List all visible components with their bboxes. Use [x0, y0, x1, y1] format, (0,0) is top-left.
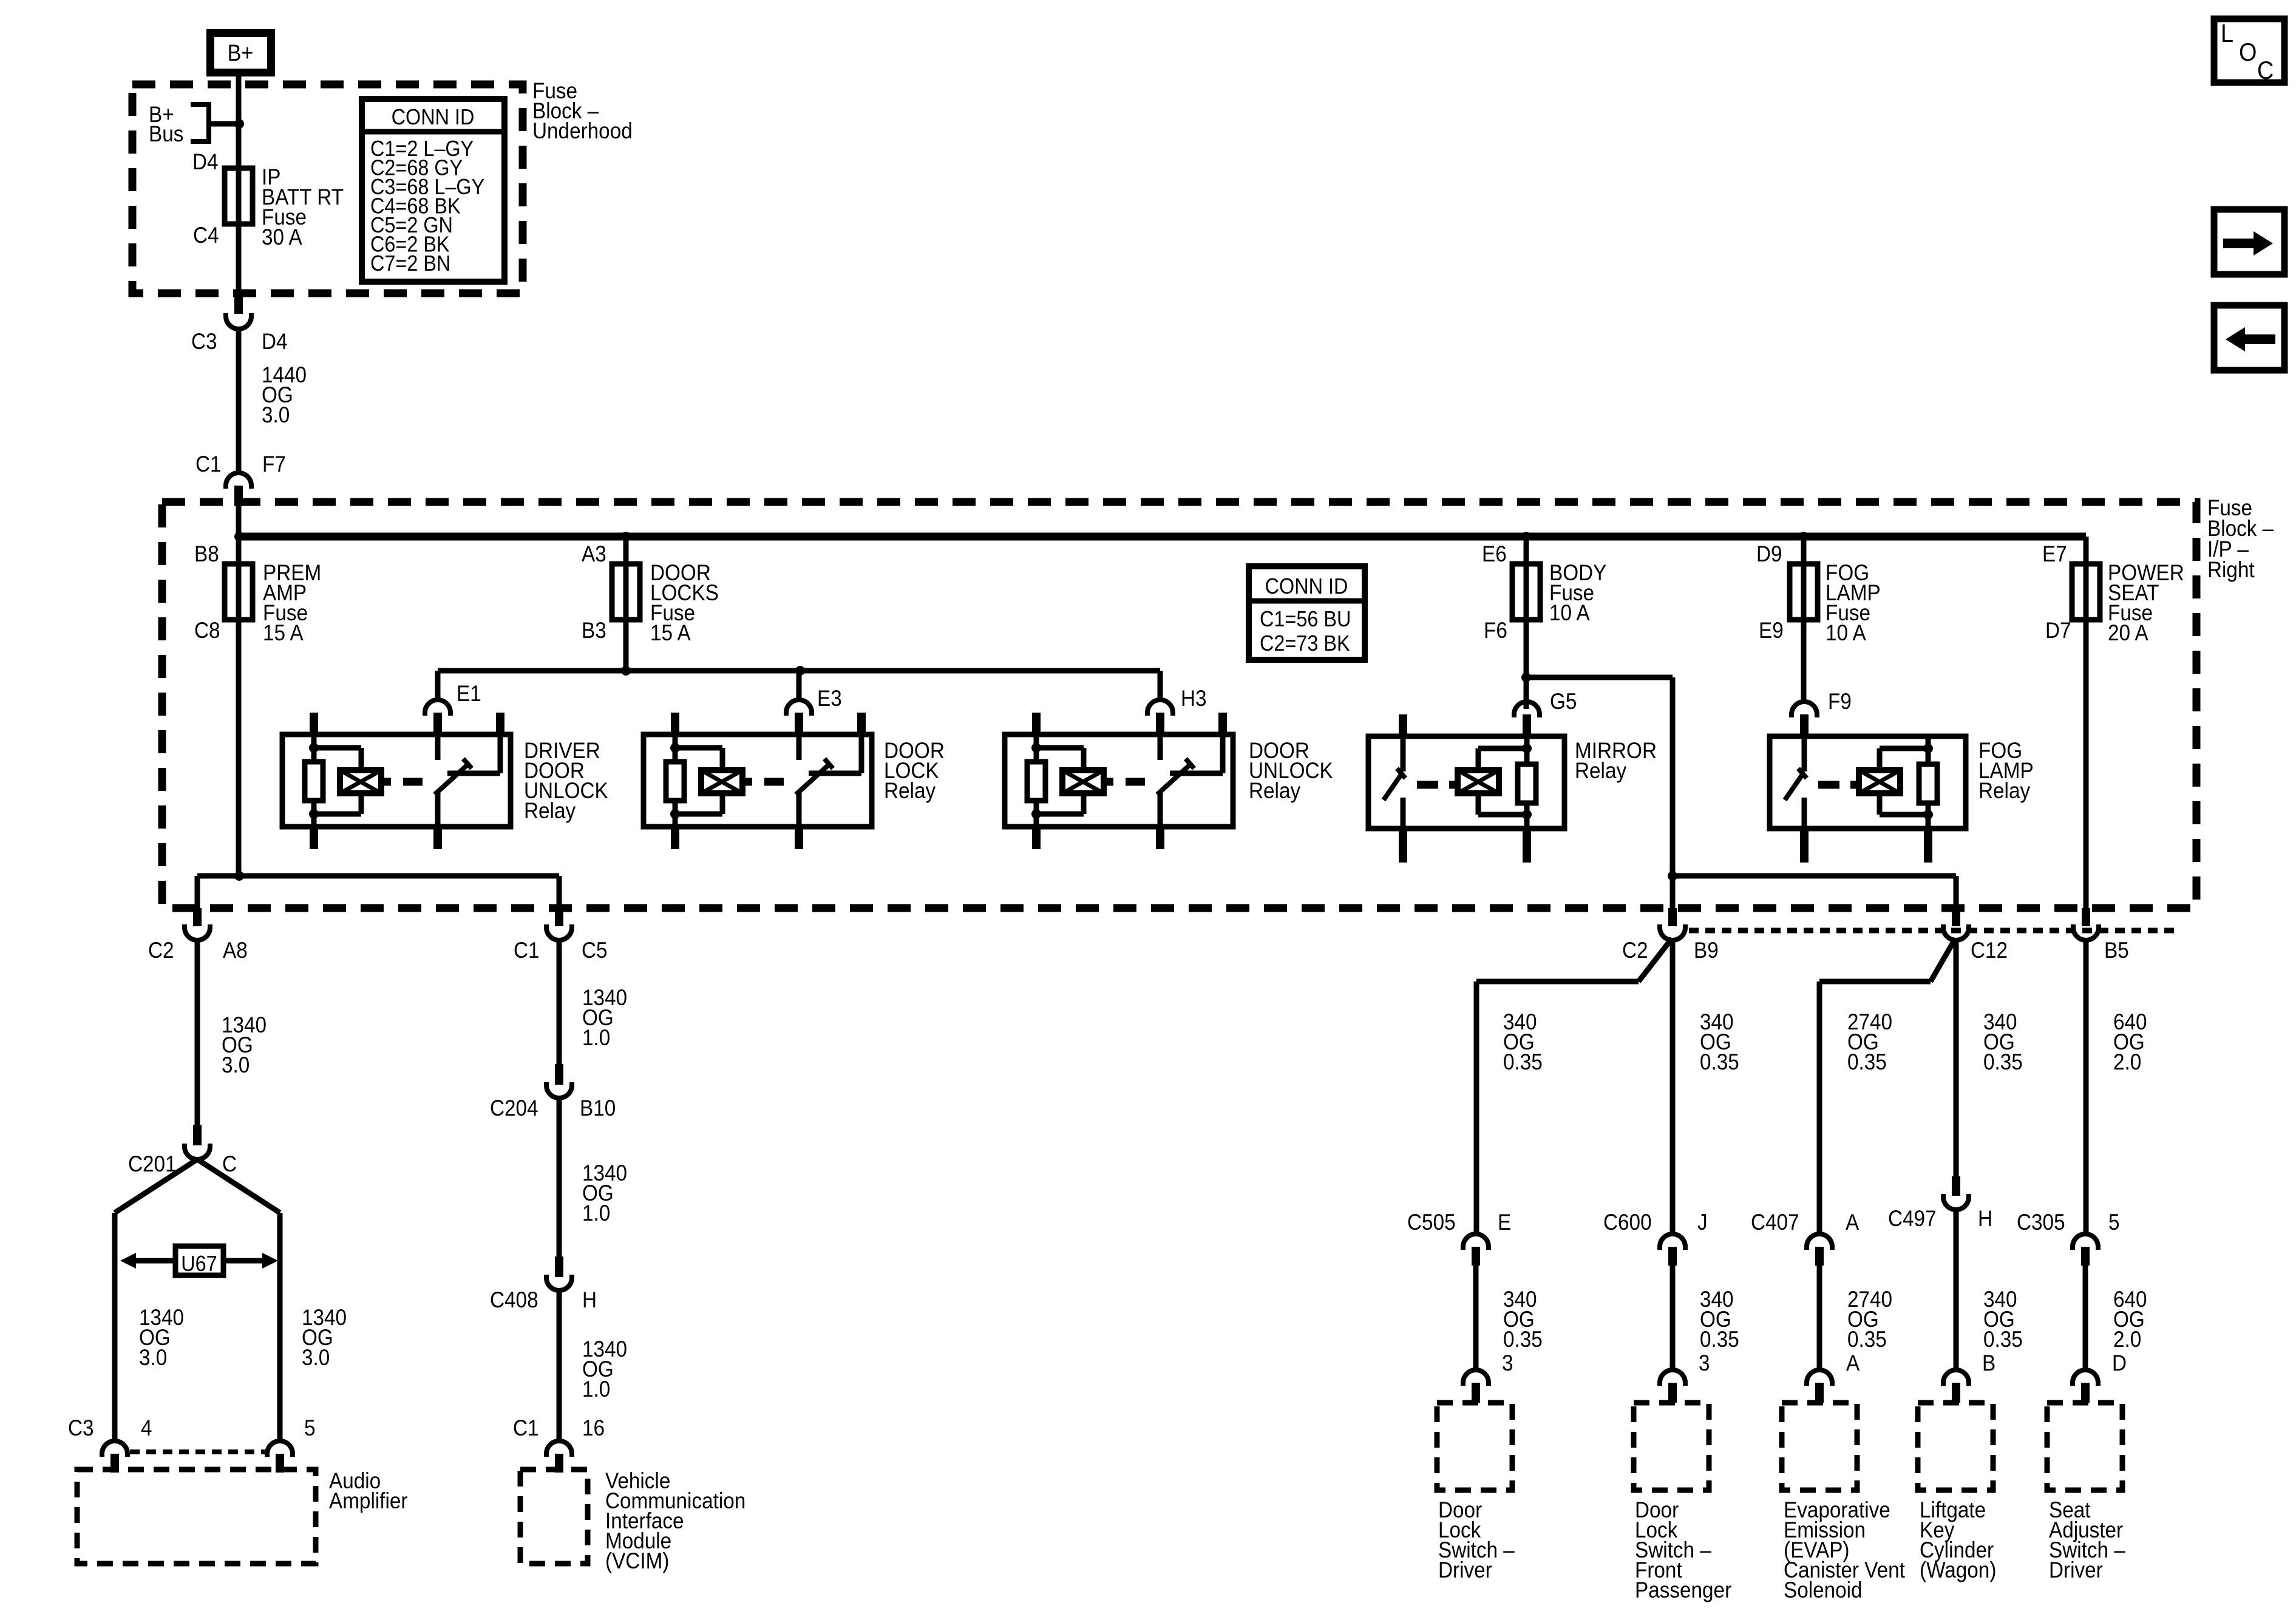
svg-text:C1: C1 — [513, 1415, 539, 1440]
svg-text:(Wagon): (Wagon) — [1920, 1558, 1996, 1582]
svg-text:A3: A3 — [582, 541, 606, 566]
svg-text:B+: B+ — [228, 39, 254, 66]
svg-text:D4: D4 — [262, 329, 288, 354]
svg-text:Underhood: Underhood — [532, 118, 633, 143]
svg-text:0.35: 0.35 — [1847, 1049, 1887, 1074]
svg-text:3.0: 3.0 — [139, 1345, 167, 1370]
svg-text:C8: C8 — [194, 618, 220, 643]
svg-text:C1: C1 — [195, 452, 222, 476]
svg-text:C505: C505 — [1407, 1210, 1456, 1235]
svg-text:C3: C3 — [68, 1415, 94, 1440]
svg-text:A: A — [1846, 1351, 1860, 1375]
svg-text:E3: E3 — [817, 686, 842, 711]
svg-text:Solenoid: Solenoid — [1784, 1578, 1863, 1602]
svg-text:0.35: 0.35 — [1503, 1049, 1543, 1074]
svg-text:Relay: Relay — [524, 798, 576, 823]
svg-text:C1=56 BU: C1=56 BU — [1260, 607, 1351, 631]
svg-text:4: 4 — [141, 1415, 152, 1440]
svg-text:30 A: 30 A — [262, 225, 302, 249]
svg-text:1.0: 1.0 — [582, 1025, 610, 1050]
svg-text:C407: C407 — [1751, 1210, 1799, 1235]
svg-text:5: 5 — [2108, 1210, 2120, 1235]
svg-text:U67: U67 — [181, 1252, 217, 1276]
svg-text:15 A: 15 A — [263, 620, 304, 645]
svg-text:C305: C305 — [2017, 1210, 2065, 1235]
svg-text:H: H — [1978, 1206, 1992, 1231]
svg-text:J: J — [1697, 1210, 1708, 1235]
svg-text:E1: E1 — [457, 681, 481, 706]
svg-text:Driver: Driver — [2049, 1558, 2103, 1582]
svg-text:C2=73 BK: C2=73 BK — [1260, 631, 1350, 656]
svg-text:F6: F6 — [1484, 618, 1507, 643]
svg-text:C2: C2 — [148, 938, 174, 963]
svg-text:15 A: 15 A — [650, 620, 691, 645]
svg-text:C: C — [2257, 56, 2274, 84]
svg-text:B9: B9 — [1694, 938, 1719, 963]
svg-text:C4: C4 — [193, 223, 219, 248]
svg-text:C7=2 BN: C7=2 BN — [370, 251, 450, 276]
svg-text:16: 16 — [582, 1415, 605, 1440]
svg-text:Right: Right — [2207, 557, 2255, 582]
svg-text:D4: D4 — [192, 149, 219, 174]
svg-text:1.0: 1.0 — [582, 1201, 610, 1225]
svg-text:3: 3 — [1502, 1351, 1513, 1375]
svg-text:0.35: 0.35 — [1700, 1049, 1739, 1074]
svg-text:0.35: 0.35 — [1700, 1327, 1739, 1352]
svg-text:2.0: 2.0 — [2113, 1327, 2141, 1352]
svg-text:1.0: 1.0 — [582, 1377, 610, 1402]
svg-text:0.35: 0.35 — [1503, 1327, 1543, 1352]
svg-text:10 A: 10 A — [1549, 600, 1590, 625]
svg-text:H3: H3 — [1181, 686, 1207, 711]
svg-text:H: H — [582, 1287, 597, 1312]
svg-text:20 A: 20 A — [2108, 620, 2148, 645]
svg-text:C497: C497 — [1888, 1206, 1937, 1231]
svg-text:B8: B8 — [194, 541, 219, 566]
svg-text:C201: C201 — [128, 1151, 177, 1176]
svg-text:A: A — [1846, 1210, 1860, 1235]
svg-text:CONN ID: CONN ID — [392, 105, 475, 129]
svg-text:B10: B10 — [580, 1096, 616, 1120]
svg-text:C600: C600 — [1603, 1210, 1652, 1235]
svg-text:D: D — [2112, 1351, 2127, 1375]
svg-text:Relay: Relay — [1575, 758, 1626, 783]
svg-text:D7: D7 — [2045, 618, 2071, 643]
svg-text:L: L — [2221, 19, 2233, 47]
svg-text:B: B — [1982, 1351, 1995, 1375]
svg-text:F9: F9 — [1828, 689, 1852, 714]
svg-text:3: 3 — [1699, 1351, 1710, 1375]
svg-text:3.0: 3.0 — [262, 402, 290, 427]
svg-text:C12: C12 — [1971, 938, 2008, 963]
svg-text:C408: C408 — [490, 1287, 538, 1312]
svg-text:B3: B3 — [582, 618, 606, 643]
svg-text:10 A: 10 A — [1826, 620, 1866, 645]
svg-text:(VCIM): (VCIM) — [605, 1548, 669, 1573]
svg-text:Bus: Bus — [149, 121, 183, 146]
svg-text:A8: A8 — [223, 938, 248, 963]
svg-text:0.35: 0.35 — [1983, 1049, 2023, 1074]
svg-text:Relay: Relay — [1249, 778, 1300, 803]
svg-text:C204: C204 — [490, 1096, 538, 1120]
svg-text:Amplifier: Amplifier — [329, 1488, 408, 1513]
svg-text:D9: D9 — [1756, 541, 1782, 566]
svg-text:3.0: 3.0 — [302, 1345, 330, 1370]
svg-text:C1: C1 — [514, 938, 540, 963]
svg-text:0.35: 0.35 — [1983, 1327, 2023, 1352]
svg-text:B5: B5 — [2104, 938, 2129, 963]
svg-text:E: E — [1498, 1210, 1511, 1235]
svg-text:E7: E7 — [2042, 541, 2067, 566]
svg-text:G5: G5 — [1550, 689, 1577, 714]
svg-text:E9: E9 — [1759, 618, 1784, 643]
svg-text:C: C — [222, 1151, 237, 1176]
svg-text:C3: C3 — [191, 329, 217, 354]
svg-text:F7: F7 — [262, 452, 286, 476]
svg-text:O: O — [2239, 38, 2257, 66]
svg-text:Driver: Driver — [1438, 1558, 1492, 1582]
svg-text:0.35: 0.35 — [1847, 1327, 1887, 1352]
svg-text:C2: C2 — [1622, 938, 1648, 963]
svg-text:5: 5 — [304, 1415, 316, 1440]
svg-text:E6: E6 — [1482, 541, 1507, 566]
svg-text:C5: C5 — [582, 938, 608, 963]
svg-text:2.0: 2.0 — [2113, 1049, 2141, 1074]
svg-text:3.0: 3.0 — [222, 1053, 250, 1077]
svg-text:Relay: Relay — [884, 778, 936, 803]
svg-text:Passenger: Passenger — [1635, 1578, 1731, 1602]
svg-text:Relay: Relay — [1978, 778, 2030, 803]
svg-text:CONN ID: CONN ID — [1265, 574, 1348, 598]
